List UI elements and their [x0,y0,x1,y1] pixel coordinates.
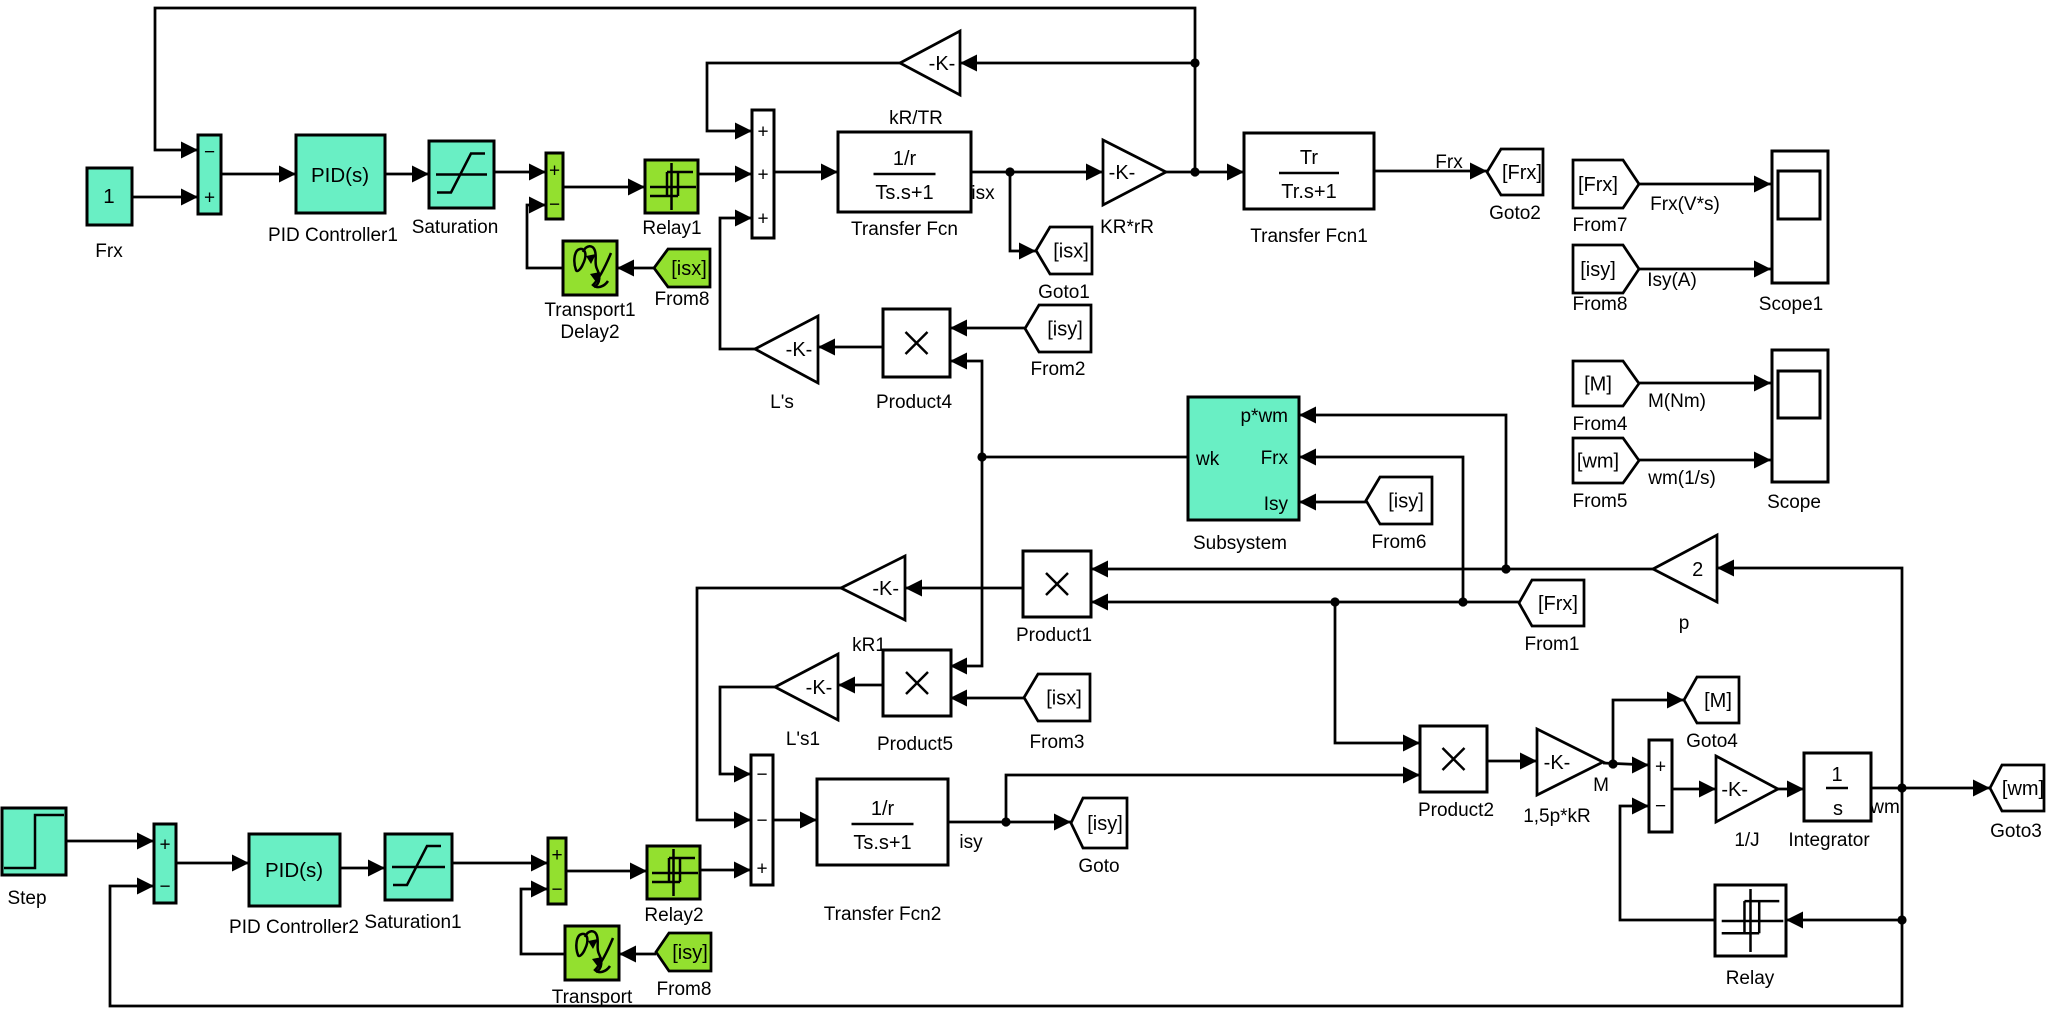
wire: Relay1 to Sum3 + (middle) [698,166,752,183]
svg-text:+: + [549,161,560,182]
svg-text:Ts.s+1: Ts.s+1 [853,832,911,854]
svg-text:p*wm: p*wm [1240,406,1288,427]
svg-text:Transfer Fcn: Transfer Fcn [851,219,958,240]
relay Relay1 [642,160,701,239]
svg-text:2: 2 [1692,559,1703,581]
wire: feedback tap to gain -K- [960,55,1195,72]
svg-text:PID Controller1: PID Controller1 [268,225,398,246]
wire: p gain output to Product1 input1 [1091,561,1653,578]
svg-text:Product5: Product5 [877,734,953,755]
svg-text:+: + [1655,757,1666,778]
svg-text:+: + [551,845,562,866]
svg-text:+: + [159,835,170,856]
svg-text:Product2: Product2 [1418,800,1494,821]
gain KR*rR [1100,140,1166,238]
svg-text:wm(1/s): wm(1/s) [1647,468,1716,489]
wire: From7 to Scope1 [1639,176,1771,193]
wire: From4 to Scope [1639,375,1771,392]
svg-text:Scope: Scope [1767,492,1821,513]
svg-text:Ts.s+1: Ts.s+1 [875,182,933,204]
svg-text:[isy]: [isy] [1580,259,1616,281]
svg-text:1/J: 1/J [1734,830,1759,851]
svg-text:Saturation: Saturation [412,217,499,238]
gain -K- top feedback [900,31,960,95]
svg-text:isx: isx [971,183,995,204]
wire: Sum3 to Transfer Fcn [774,164,838,181]
node isx [971,183,995,204]
junction: isy tap [1001,817,1010,826]
svg-text:From8: From8 [657,979,712,1000]
PID Controller1 [268,135,398,246]
svg-text:[isy]: [isy] [672,942,708,964]
saturation Saturation1 [364,834,461,933]
svg-text:[wm]: [wm] [1577,451,1619,473]
svg-text:PID Controller2: PID Controller2 [229,917,359,938]
sum Sum3 [752,110,774,238]
wire: Transport to Sum5 - [521,881,565,955]
svg-text:−: − [1655,796,1666,817]
svg-text:Tr.s+1: Tr.s+1 [1281,181,1336,203]
svg-text:Integrator: Integrator [1788,830,1870,851]
svg-text:[Frx]: [Frx] [1538,593,1578,615]
svg-text:Product1: Product1 [1016,625,1092,646]
wire: PID Controller1 to Saturation [385,166,429,183]
wire: wm up to gain p [1717,560,1902,789]
relay Relay2 [644,846,703,926]
node wm [1869,797,1900,818]
wire: Saturation to Sum2 + [494,164,546,181]
from tag From5 (wm) [1573,438,1639,512]
from tag From2 (isy) [1025,305,1091,380]
svg-text:Saturation1: Saturation1 [364,912,461,933]
svg-text:[wm]: [wm] [2002,778,2044,800]
wire: From5 to Scope [1639,452,1771,469]
wire: Product5 to gain L's1 [838,677,883,694]
svg-text:Relay2: Relay2 [644,905,703,926]
svg-text:[isy]: [isy] [1388,491,1424,513]
wire: From1 to Product1 input2 [1091,594,1519,611]
wire: Sum7 to gain 1/J [1672,781,1716,798]
wire: From8 to Scope1 [1639,261,1771,278]
goto tag Goto2 (Frx) [1487,149,1543,224]
wire: Frx up to Subsystem Frx input [1299,449,1463,603]
wire: Sum5 to Relay2 [566,863,647,880]
svg-text:Isy(A): Isy(A) [1647,270,1697,291]
svg-text:Frx: Frx [1261,448,1289,469]
svg-text:+: + [757,209,768,230]
svg-text:-K-: -K- [929,53,956,75]
svg-text:Goto3: Goto3 [1990,821,2042,842]
wire: From8 to Transport1 Delay2 [617,260,654,277]
junction: isx to feedback loop [1190,167,1199,176]
constant Frx (value 1) [87,168,132,262]
svg-text:kR1: kR1 [852,635,886,656]
sum Sum7 [1649,740,1672,832]
goto tag Goto4 (M) [1684,677,1739,752]
svg-text:[isy]: [isy] [1047,319,1083,341]
svg-text:L's: L's [770,392,794,413]
integrator Integrator [1788,753,1871,851]
gain 1,5p*kR [1523,729,1603,827]
svg-text:Transfer Fcn2: Transfer Fcn2 [824,904,942,925]
label kR/TR [889,108,943,129]
svg-text:Transport1: Transport1 [544,300,635,321]
svg-text:Transfer Fcn1: Transfer Fcn1 [1250,226,1368,247]
goto tag Goto (isy) [1071,798,1127,877]
product Product1 [1016,551,1092,646]
svg-text:Product4: Product4 [876,392,952,413]
from tag From7 (Frx) [1573,160,1639,236]
wire: L's to Sum3 + (bottom) [720,210,755,350]
svg-text:−: − [551,880,562,901]
product Product5 [877,650,953,755]
svg-text:PID(s): PID(s) [311,164,369,187]
wire: Transfer Fcn1 to Goto2 [1374,163,1487,180]
svg-text:From5: From5 [1573,491,1628,512]
from tag From8 (isy lower) [656,933,711,1000]
svg-text:-K-: -K- [1544,752,1571,774]
wire: Sum6 to PID Controller2 [176,855,249,872]
wire: From3 to Product5 input2 [950,690,1024,707]
junction: Frx to Product2 tap [1330,597,1339,606]
wire: L's1 to Sum4 - (top) [720,687,775,783]
from tag From4 (M) [1573,361,1639,435]
svg-text:Frx(V*s): Frx(V*s) [1650,194,1720,215]
svg-text:Goto: Goto [1078,856,1119,877]
junction: isx tap to Goto1 [1005,167,1014,176]
relay Relay [1715,885,1786,989]
wire: Subsystem wk output [982,456,1188,459]
gain L's1 [775,654,838,750]
transport delay Transport1 Delay2 [544,241,635,343]
svg-text:1,5p*kR: 1,5p*kR [1523,806,1591,827]
wire: From6 to Subsystem Isy [1299,494,1366,511]
gain 1/J [1716,756,1778,851]
svg-text:-K-: -K- [786,339,813,361]
from tag From8 (isy to scope) [1573,245,1639,315]
wire: Integrator to Goto3 (wm) [1871,780,1990,797]
wire: Relay to Sum7 - [1620,798,1715,921]
svg-text:-K-: -K- [806,677,833,699]
sum Sum4 [751,755,773,885]
svg-text:1/r: 1/r [871,798,895,820]
sum Sum1 [198,135,221,214]
wire: 1/J to Integrator [1778,781,1804,798]
wire: KR*rR to Transfer Fcn1 [1166,164,1244,181]
from tag From8 (isx) [654,249,710,310]
scope Scope1 [1759,151,1828,315]
svg-text:−: − [159,877,170,898]
from tag From6 (isy) [1366,477,1432,553]
svg-text:−: − [756,811,767,832]
PID Controller2 [229,834,359,938]
svg-text:-K-: -K- [1721,779,1748,801]
wire: PID Controller2 to Saturation1 [340,860,385,877]
svg-text:isy: isy [959,832,983,853]
svg-text:M: M [1593,775,1609,796]
wire: Sum2 to Relay1 [563,179,645,196]
svg-text:p: p [1679,613,1690,634]
wire: Step to Sum6 + [66,833,154,850]
wire: wm to Relay [1786,912,1902,929]
junction: wm to Relay tap [1897,915,1906,924]
node isy [959,832,983,853]
junction: p*wm tap [1501,564,1510,573]
svg-text:KR*rR: KR*rR [1100,217,1154,238]
node Isy(A) [1647,270,1697,291]
wire: Saturation1 to Sum5 + [452,855,548,872]
wire: isx feedback to Sum1 - [155,8,1195,172]
svg-text:Delay2: Delay2 [560,322,619,343]
svg-text:From6: From6 [1372,532,1427,553]
svg-text:M(Nm): M(Nm) [1648,391,1706,412]
svg-text:From7: From7 [1573,215,1628,236]
svg-text:−: − [549,195,560,216]
goto tag Goto3 (wm) [1990,765,2044,842]
svg-text:+: + [757,165,768,186]
wire: wk to Product5 input1 [950,457,982,675]
junction: wk node [977,452,986,461]
svg-text:Scope1: Scope1 [1759,294,1823,315]
svg-text:Isy: Isy [1264,494,1289,515]
svg-text:1: 1 [103,185,114,208]
svg-text:kR/TR: kR/TR [889,108,943,129]
svg-text:+: + [757,122,768,143]
svg-text:1/r: 1/r [893,148,917,170]
sum Sum6 [154,824,176,903]
wire: isx to Goto1 [1010,172,1036,260]
svg-text:Subsystem: Subsystem [1193,533,1287,554]
svg-text:Goto4: Goto4 [1686,731,1738,752]
svg-text:From2: From2 [1031,359,1086,380]
gain kR1 [841,556,905,656]
wire: Frx down to Product2 input1 [1335,602,1420,752]
svg-text:Step: Step [7,888,46,909]
wire: Transport1 Delay2 to Sum2 - [527,197,563,269]
svg-text:+: + [756,859,767,880]
transfer function Transfer Fcn [838,132,971,240]
wire: gain -K- to Sum3 + (top) [707,63,900,140]
junction: Frx to Subsystem tap [1458,597,1467,606]
product Product2 [1418,726,1494,821]
wire: Sum4 to Transfer Fcn2 [773,812,817,829]
wire: Transfer Fcn to gain KR*rR (isx) [971,164,1103,181]
from tag From1 (Frx) [1519,580,1584,655]
svg-text:−: − [756,765,767,786]
sum Sum5 [548,838,566,904]
step source Step [2,808,66,909]
svg-text:wm: wm [1869,797,1900,818]
wire: kR1 to Sum4 - (middle) [697,588,841,829]
svg-text:PID(s): PID(s) [265,859,323,882]
wire: isy up to Product2 input2 [1006,767,1420,823]
wire: wk to Product4 input2 [950,353,982,458]
sum Sum2 [546,153,563,219]
from tag From3 (isx) [1024,674,1090,753]
transfer function Transfer Fcn1 [1244,133,1374,247]
svg-text:L's1: L's1 [786,729,820,750]
svg-text:Tr: Tr [1300,147,1318,169]
svg-text:From8: From8 [655,289,710,310]
wire: Product2 to gain 1,5p*kR [1487,753,1537,770]
svg-text:−: − [204,142,215,163]
product Product4 [876,309,952,413]
svg-text:1: 1 [1831,764,1842,786]
wire: p*wm to Subsystem [1299,407,1506,570]
svg-text:[Frx]: [Frx] [1502,162,1542,184]
svg-text:[isx]: [isx] [1046,688,1082,710]
wire: constant to Sum1 + [132,189,198,206]
svg-text:Frx: Frx [95,241,123,262]
scope Scope [1767,350,1828,513]
svg-text:From3: From3 [1030,732,1085,753]
svg-text:[Frx]: [Frx] [1578,174,1618,196]
svg-text:From1: From1 [1525,634,1580,655]
svg-text:[isx]: [isx] [1053,241,1089,263]
wire: M up to Goto4 [1613,692,1684,765]
svg-text:Relay1: Relay1 [642,218,701,239]
wire: Product1 to gain kR1 [905,580,1023,597]
svg-text:+: + [204,188,215,209]
node M(Nm) [1648,391,1706,412]
svg-text:[M]: [M] [1704,690,1732,712]
wire: Product4 to gain L's [818,339,883,356]
svg-text:[M]: [M] [1584,374,1612,396]
svg-text:From4: From4 [1573,414,1628,435]
node M [1593,775,1609,796]
node wm(1/s) [1647,468,1716,489]
svg-text:Goto1: Goto1 [1038,282,1090,303]
node Frx [1435,152,1463,173]
saturation Saturation [412,141,499,238]
wire: Relay2 to Sum4 + [700,862,751,879]
svg-text:-K-: -K- [872,578,899,600]
wire: Sum1 to PID Controller1 [221,166,296,183]
junction: M node [1608,759,1617,768]
gain p (value 2) [1653,535,1717,634]
wire: wm down to bottom feedback to Sum6 - [110,788,1902,1006]
svg-text:-K-: -K- [1109,162,1136,184]
wire: 1,5p*kR to Sum7 + (node M) [1603,757,1649,774]
node Frx(V*s) [1650,194,1720,215]
svg-text:Relay: Relay [1726,968,1775,989]
gain L's [755,316,818,413]
wire: From8 to Transport [619,946,656,963]
svg-text:s: s [1833,798,1843,820]
junction: feedback tap to gain [1190,58,1199,67]
svg-text:From8: From8 [1573,294,1628,315]
svg-text:[isx]: [isx] [671,258,707,280]
transport delay Transport [552,926,633,1008]
wire: Transfer Fcn2 to Goto (isy) [948,814,1071,831]
wire: From2 to Product4 input1 [950,320,1025,337]
transfer function Transfer Fcn2 [817,779,948,925]
svg-text:Goto2: Goto2 [1489,203,1541,224]
svg-text:[isy]: [isy] [1087,813,1123,835]
junction: wm node [1897,783,1906,792]
svg-text:wk: wk [1195,449,1220,470]
goto tag Goto1 (isx) [1036,227,1092,303]
subsystem Subsystem [1188,397,1299,554]
